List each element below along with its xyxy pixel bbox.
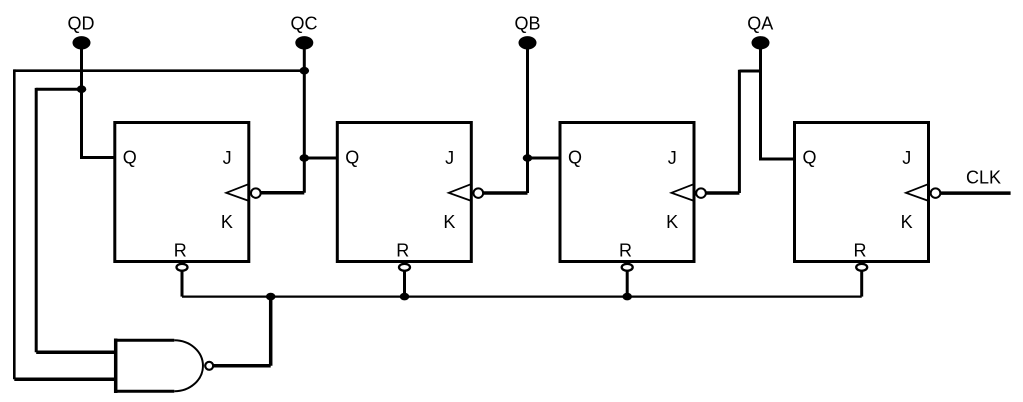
U1 clock edge wedge — [226, 184, 248, 200]
JK flip-flop U2 body — [337, 123, 471, 262]
wire NAND input B vertical (x=14) — [13, 69, 16, 379]
wire U2 R stem — [403, 267, 406, 296]
U2 reset bubble — [399, 264, 410, 271]
wire QC to U1 clock — [256, 191, 304, 195]
U4 clock inversion bubble — [931, 188, 941, 198]
junction dot reset / U3 R — [622, 293, 632, 301]
svg-text:QC: QC — [291, 14, 318, 34]
svg-text:QA: QA — [747, 14, 773, 34]
svg-text:K: K — [666, 212, 678, 232]
NAND gate G1 left edge — [114, 339, 118, 394]
svg-text:R: R — [854, 241, 867, 261]
junction dot QC / long feedback wire — [300, 67, 310, 75]
junction dot reset / NAND output — [266, 293, 276, 301]
NAND gate G1 top edge — [114, 339, 174, 342]
junction dot reset / U2 R — [400, 293, 410, 301]
wire QA branch jog horizontal (y=71) — [739, 70, 760, 73]
svg-text:Q: Q — [803, 148, 817, 168]
svg-text:J: J — [445, 148, 454, 168]
U2 clock edge wedge — [449, 184, 471, 200]
terminal dot QA — [752, 36, 770, 49]
svg-text:R: R — [174, 241, 187, 261]
wire NAND output horizontal — [209, 364, 271, 368]
wire QA to U4 Q — [759, 158, 795, 161]
wire QA branch vertical (x=739) — [738, 70, 741, 193]
svg-text:QD: QD — [68, 14, 95, 34]
JK flip-flop U3 body — [560, 123, 694, 262]
U3 reset bubble — [622, 264, 633, 271]
wire NAND input B stub — [14, 377, 116, 381]
JK flip-flop U1 body — [115, 123, 249, 262]
svg-text:R: R — [619, 241, 632, 261]
svg-text:K: K — [221, 212, 233, 232]
svg-text:Q: Q — [345, 148, 359, 168]
junction dot QC / U2 Q — [300, 154, 310, 162]
wire NAND output vertical — [269, 297, 273, 366]
wire U3 R stem — [626, 267, 629, 296]
svg-text:K: K — [901, 212, 913, 232]
svg-text:CLK: CLK — [966, 168, 1001, 188]
U4 reset bubble — [856, 264, 867, 271]
wire QD to U1 Q — [80, 156, 115, 159]
wire NAND input A vertical (x=36) — [35, 88, 38, 352]
terminal dot QC — [295, 36, 313, 49]
U4 clock edge wedge — [906, 184, 928, 200]
wire QC to U2 Q — [304, 157, 337, 160]
svg-text:QB: QB — [514, 14, 540, 34]
wire QD vertical — [80, 44, 83, 158]
wire reset bus horizontal — [182, 296, 862, 298]
U2 clock inversion bubble — [473, 188, 483, 198]
wire U1 R stem — [181, 267, 184, 296]
wire QB vertical — [526, 44, 529, 193]
U3 clock edge wedge — [672, 184, 694, 200]
junction dot QD / NAND input branch — [77, 85, 87, 93]
wire QA branch to U3 clock — [701, 191, 739, 195]
svg-text:J: J — [902, 148, 911, 168]
svg-text:Q: Q — [123, 148, 137, 168]
NAND gate G1 output arc — [174, 340, 203, 391]
svg-text:K: K — [443, 212, 455, 232]
U3 clock inversion bubble — [696, 188, 706, 198]
U1 clock inversion bubble — [251, 188, 261, 198]
svg-text:J: J — [223, 148, 232, 168]
wire NAND input B long horizontal (y=71) — [14, 69, 304, 72]
wire NAND input A horizontal (y=89) — [36, 88, 81, 91]
JK flip-flop U4 body — [795, 123, 929, 262]
terminal dot QB — [519, 36, 537, 49]
wire U4 R stem — [860, 267, 863, 296]
wire QA vertical — [759, 44, 762, 159]
svg-text:R: R — [396, 241, 409, 261]
svg-text:J: J — [668, 148, 677, 168]
wire CLK input — [936, 191, 1011, 195]
wire QC vertical — [303, 44, 306, 193]
wire QB to U3 Q — [528, 157, 561, 160]
U1 reset bubble — [177, 264, 188, 271]
junction dot QB / U3 Q — [523, 154, 533, 162]
svg-text:Q: Q — [568, 148, 582, 168]
NAND gate G1 bottom edge — [114, 390, 174, 393]
terminal dot QD — [73, 36, 91, 49]
wire QB to U2 clock — [478, 191, 527, 195]
NAND gate G1 inversion bubble — [205, 362, 213, 370]
wire NAND input A stub — [36, 351, 116, 355]
